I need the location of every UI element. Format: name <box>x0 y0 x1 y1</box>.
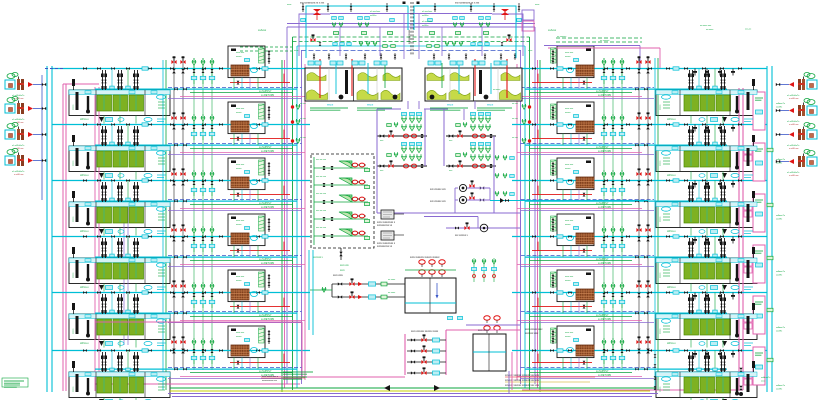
svg-text:xx-RETURN: xx-RETURN <box>261 94 274 97</box>
svg-text:xx xxx: xx xxx <box>512 118 519 120</box>
svg-text:xx-SUPPLY: xx-SUPPLY <box>596 146 609 149</box>
svg-text:xxx xxxxxx xxx: xxx xxxxxx xxx <box>430 188 446 191</box>
svg-text:xxxxx: xxxxx <box>565 280 571 282</box>
svg-text:xx-RETURN: xx-RETURN <box>261 206 274 209</box>
svg-text:xx-SUPPLY: xx-SUPPLY <box>259 90 272 93</box>
svg-text:xL-xWxHxTx: xL-xWxHxTx <box>787 172 800 174</box>
svg-text:xxx xxxxxxxxx xx x xxx: xxx xxxxxxxxx xx x xxx <box>300 2 325 5</box>
svg-text:xxxxxxxxxxxx: xxxxxxxxxxxx <box>408 29 411 44</box>
svg-text:xx xxxxxx: xx xxxxxx <box>600 40 610 42</box>
svg-text:xL-xWxHxTx: xL-xWxHxTx <box>12 119 25 121</box>
svg-text:xxxxx: xxxxx <box>236 112 242 114</box>
svg-text:xxxxx: xxxxx <box>565 224 571 226</box>
svg-text:xWxxx-x: xWxxx-x <box>80 119 90 121</box>
svg-text:xx-RETURN: xx-RETURN <box>598 206 611 209</box>
svg-text:xxxx xxx: xxxx xxx <box>236 220 245 222</box>
svg-text:xxxxx: xxxxx <box>73 328 75 334</box>
svg-text:xWxxx-x: xWxxx-x <box>667 231 677 233</box>
svg-text:xxx xx xxx: xxx xx xxx <box>316 176 327 178</box>
svg-text:xWxxx-x: xWxxx-x <box>667 119 677 121</box>
svg-text:xL-xWxHxTx: xL-xWxHxTx <box>12 171 25 173</box>
svg-text:xxxx xxx: xxxx xxx <box>236 276 245 278</box>
svg-text:xWxxx-x: xWxxx-x <box>80 287 90 289</box>
svg-text:xx xxx: xx xxx <box>300 118 307 120</box>
svg-text:x-xxW xxx: x-xxW xxx <box>789 175 799 177</box>
svg-text:xx-SUPPLY: xx-SUPPLY <box>259 146 272 149</box>
svg-text:xxxxx: xxxxx <box>236 280 242 282</box>
svg-text:xxxxxxxxxx xx: xxxxxxxxxx xx <box>377 224 393 227</box>
svg-text:xx-RETURN: xx-RETURN <box>598 150 611 153</box>
svg-text:xxxWx: xxxWx <box>776 275 783 277</box>
svg-text:xxxx xxx: xxxx xxx <box>236 108 245 110</box>
svg-text:xx-xxxx xxx: xx-xxxx xxx <box>700 25 712 27</box>
svg-text:xx-SUPPLY: xx-SUPPLY <box>596 202 609 205</box>
svg-text:xxxWx: xxxWx <box>776 331 783 333</box>
svg-text:xxxxx: xxxxx <box>73 272 75 278</box>
svg-text:x-xxW xxx: x-xxW xxx <box>14 174 24 176</box>
svg-text:xxxxx: xxxxx <box>565 56 571 58</box>
svg-text:xx-SUPPLY: xx-SUPPLY <box>259 370 272 373</box>
svg-text:xxxx xxx: xxxx xxx <box>236 52 245 54</box>
svg-text:xxxx xxx: xxxx xxx <box>565 220 574 222</box>
svg-text:xL-xxx/xxx: xL-xxx/xxx <box>422 21 433 23</box>
svg-text:wxyz: wxyz <box>367 103 374 107</box>
svg-text:xxxxx: xxxxx <box>660 272 662 278</box>
svg-text:wxyz: wxyz <box>487 103 494 107</box>
svg-text:xWxxx-x: xWxxx-x <box>667 343 677 345</box>
svg-text:xxx xx xxx: xxx xx xxx <box>316 210 327 212</box>
svg-text:xxxxx: xxxxx <box>660 104 662 110</box>
svg-text:xx xxx: xx xxx <box>512 103 519 105</box>
svg-text:xL-xWxHxTx: xL-xWxHxTx <box>787 95 800 97</box>
svg-text:xxxxx: xxxxx <box>565 336 571 338</box>
svg-text:xxxWx: xxxWx <box>776 107 783 109</box>
svg-text:xxxxx: xxxxx <box>565 168 571 170</box>
svg-text:xxx xx xxx: xxx xx xxx <box>316 159 327 161</box>
svg-text:xxxWx: xxxWx <box>776 389 783 391</box>
svg-text:xxx xxxxxx xxx: xxx xxxxxx xxx <box>430 200 446 203</box>
svg-text:xx xxx: xx xxx <box>300 103 307 105</box>
svg-text:xx xxxxxx: xx xxxxxx <box>557 36 567 38</box>
svg-text:xx-SUPPLY: xx-SUPPLY <box>596 314 609 317</box>
svg-text:xxxxxxx xxxx: xxxxxxx xxxx <box>525 333 539 335</box>
svg-text:xxAxxxTx: xxAxxxTx <box>776 158 786 161</box>
svg-text:xxAxxxTx: xxAxxxTx <box>776 384 786 387</box>
svg-text:xxxx xxx: xxxx xxx <box>565 164 574 166</box>
svg-text:xx-SUPPLY: xx-SUPPLY <box>596 370 609 373</box>
svg-text:xxxxxx xxxxxx xxxxxx xxx xxx: xxxxxx xxxxxx xxxxxx xxx xxx <box>505 384 540 387</box>
svg-text:xxAxxxTx: xxAxxxTx <box>776 326 786 329</box>
svg-text:xxxxx: xxxxx <box>236 336 242 338</box>
svg-text:xxxx xxxxxxx xxxxxx xxxxx: xxxx xxxxxxx xxxxxx xxxxx <box>411 331 439 333</box>
svg-text:xx-RETURN: xx-RETURN <box>598 94 611 97</box>
svg-text:xx-RETURN: xx-RETURN <box>598 262 611 265</box>
svg-text:xWxxx-x: xWxxx-x <box>80 343 90 345</box>
svg-text:xxxx xxx: xxxx xxx <box>236 332 245 334</box>
svg-text:xxx xxxxxx x: xxx xxxxxx x <box>455 235 469 237</box>
svg-text:xxxx xxxx: xxxx xxxx <box>333 275 344 277</box>
svg-text:xxxxx: xxxxx <box>565 112 571 114</box>
svg-text:xxxx xxx: xxxx xxx <box>340 265 350 267</box>
svg-text:xxWxx: xxWxx <box>422 25 429 27</box>
svg-text:xxxxx: xxxxx <box>236 56 242 58</box>
svg-text:xxAxxxTx: xxAxxxTx <box>761 376 771 379</box>
svg-text:xx-RETURN: xx-RETURN <box>598 374 611 377</box>
svg-text:xWxxx-x: xWxxx-x <box>667 175 677 177</box>
svg-text:xxxxx: xxxxx <box>236 168 242 170</box>
svg-text:xxWxx: xxWxx <box>370 15 377 17</box>
svg-text:xWxxx-x: xWxxx-x <box>667 287 677 289</box>
svg-text:xxxxxx xxxxxx xxxxxx xxx xxx: xxxxxx xxxxxx xxxxxx xxx xxx <box>505 379 540 382</box>
svg-text:xxxx xxx: xxxx xxx <box>565 52 574 54</box>
svg-text:x-xxW xxx: x-xxW xxx <box>14 98 24 100</box>
svg-text:xxx xx xxx: xxx xx xxx <box>316 193 327 195</box>
svg-text:xxxx xxxxxx xxxx: xxxx xxxxxx xxxx <box>525 329 543 331</box>
svg-text:xx xxx: xx xxx <box>300 137 307 139</box>
svg-text:xL-xxx/xxx: xL-xxx/xxx <box>422 11 433 13</box>
svg-text:xWxxx-x: xWxxx-x <box>80 231 90 233</box>
svg-text:wxyz: wxyz <box>327 103 334 107</box>
svg-text:xL-xxx/xxx: xL-xxx/xxx <box>370 11 381 13</box>
svg-text:xxxxxxxxxx xxx: xxxxxxxxxx xxx <box>262 380 278 382</box>
svg-text:xxWxx: xxWxx <box>422 15 429 17</box>
svg-text:xxx xx xxx: xxx xx xxx <box>316 227 327 229</box>
svg-text:xxxxx: xxxxx <box>73 104 75 110</box>
svg-text:xxxWx: xxxWx <box>776 219 783 221</box>
svg-text:xxxxx: xxxxx <box>73 160 75 166</box>
svg-text:xL-xWxHxTx: xL-xWxHxTx <box>787 145 800 147</box>
svg-text:xx-SUPPLY: xx-SUPPLY <box>596 258 609 261</box>
svg-text:xxxx xxx: xxxx xxx <box>565 332 574 334</box>
svg-text:xx xxxx: xx xxxx <box>388 292 396 294</box>
svg-text:xxx-xx: xxx-xx <box>745 29 752 31</box>
svg-text:xxxxx: xxxxx <box>236 224 242 226</box>
svg-text:xx xxxx: xx xxxx <box>388 279 396 281</box>
svg-text:xxAxxxTx: xxAxxxTx <box>776 102 786 105</box>
svg-text:xxAxxx: xxAxxx <box>258 28 267 32</box>
svg-text:xx-SUPPLY: xx-SUPPLY <box>259 202 272 205</box>
svg-text:x-xxW xxx: x-xxW xxx <box>789 124 799 126</box>
svg-text:xxxxx: xxxxx <box>660 386 662 392</box>
svg-text:xxxxx: xxxxx <box>660 328 662 334</box>
svg-text:x-xxW xxx: x-xxW xxx <box>789 98 799 100</box>
svg-text:xxxxx: xxxxx <box>660 216 662 222</box>
svg-text:xxxx xxx: xxxx xxx <box>565 108 574 110</box>
svg-text:xx-RETURN: xx-RETURN <box>598 318 611 321</box>
svg-text:xx-xxxx: xx-xxxx <box>493 89 501 91</box>
svg-text:xxxx xxxxxxx xxxxxx xxxxxx: xxxx xxxxxxx xxxxxx xxxxxx <box>410 256 440 259</box>
svg-text:xx-SUPPLY: xx-SUPPLY <box>596 90 609 93</box>
svg-text:xx-RETURN: xx-RETURN <box>261 318 274 321</box>
svg-text:xWxxx-x: xWxxx-x <box>80 175 90 177</box>
svg-text:xL-xWxHxTx: xL-xWxHxTx <box>787 121 800 123</box>
svg-text:xxxxxx xxxxxx xxxxxx xxx xxx: xxxxxx xxxxxx xxxxxx xxx xxx <box>505 374 540 377</box>
svg-text:xxAxxxTx: xxAxxxTx <box>776 214 786 217</box>
svg-text:xxxx xxxxx: xxxx xxxxx <box>478 330 490 332</box>
svg-text:xx-RETURN: xx-RETURN <box>261 150 274 153</box>
svg-text:xxxx xxxxx xxx x: xxxx xxxxx xxx x <box>262 376 279 378</box>
svg-text:xxxxxxxxxx xx: xxxxxxxxxx xx <box>377 245 393 248</box>
svg-text:xx-xxxx: xx-xxxx <box>706 29 714 31</box>
svg-text:xxxx xxx: xxxx xxx <box>565 276 574 278</box>
svg-text:xxxWx: xxxWx <box>776 163 783 165</box>
svg-text:xxxxx: xxxxx <box>73 386 75 392</box>
svg-text:xxAxxxTx: xxAxxxTx <box>776 270 786 273</box>
svg-text:xx-RETURN: xx-RETURN <box>261 262 274 265</box>
svg-text:xxxxxxx x: xxxxxxx x <box>313 257 324 259</box>
svg-text:xxAxxx: xxAxxx <box>548 28 557 32</box>
svg-text:x-xxW xxx: x-xxW xxx <box>789 148 799 150</box>
svg-text:xx xxx: xx xxx <box>512 137 519 139</box>
svg-text:wxyz: wxyz <box>447 103 454 107</box>
svg-text:xx-SUPPLY: xx-SUPPLY <box>259 314 272 317</box>
svg-text:xxx xxxxxxxxx xx x xxx: xxx xxxxxxxxx xx x xxx <box>455 2 480 5</box>
svg-text:xx-SUPPLY: xx-SUPPLY <box>259 258 272 261</box>
svg-text:xxxxx: xxxxx <box>660 160 662 166</box>
svg-text:xxxxx: xxxxx <box>73 216 75 222</box>
svg-text:xxxx xxx: xxxx xxx <box>236 164 245 166</box>
svg-text:xL-xWxHxTx: xL-xWxHxTx <box>12 145 25 147</box>
